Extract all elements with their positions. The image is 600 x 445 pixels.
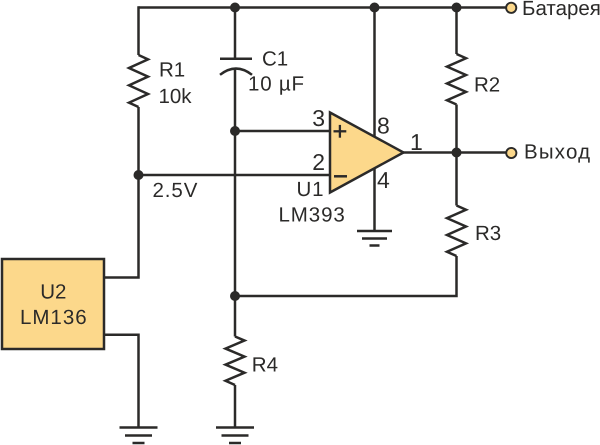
wire: top rail to C1 bbox=[234, 8, 237, 58]
capacitor C1 top plate bbox=[220, 57, 252, 60]
svg-text:R4: R4 bbox=[252, 354, 278, 377]
junction: top rail / C1 bbox=[230, 3, 240, 13]
junction: top rail / U1 pin 8 bbox=[370, 3, 380, 13]
wire: C1 bottom down middle rail to R4 bbox=[234, 69, 237, 337]
junction: top rail / R2 bbox=[452, 3, 462, 13]
svg-text:LM393: LM393 bbox=[279, 204, 346, 227]
wire: R2 bottom to output node bbox=[455, 105, 458, 153]
terminal: output bbox=[506, 148, 516, 158]
resistor R3 bbox=[447, 206, 466, 257]
ground (R4) bbox=[216, 428, 254, 444]
wire: output node to R3 bbox=[455, 153, 458, 206]
svg-text:10k: 10k bbox=[159, 85, 193, 108]
svg-text:R3: R3 bbox=[475, 222, 501, 245]
svg-text:2.5V: 2.5V bbox=[153, 179, 199, 202]
svg-text:1: 1 bbox=[410, 129, 423, 155]
op-amp U1 minus input marker bbox=[334, 175, 347, 178]
wire: node to U1 pin 3 bbox=[235, 130, 330, 133]
ground (U1 pin 4) bbox=[357, 231, 392, 246]
svg-text:U2: U2 bbox=[40, 281, 66, 304]
svg-text:Батарея: Батарея bbox=[522, 0, 600, 20]
wire: 2.5V net from left rail to U1 pin 2 bbox=[139, 174, 331, 177]
svg-text:Выход: Выход bbox=[524, 141, 591, 164]
junction: output node bbox=[452, 148, 462, 158]
terminal: battery bbox=[506, 3, 516, 13]
op-amp U1 (LM393 comparator) bbox=[330, 113, 404, 193]
wire: R4 bottom to ground bbox=[234, 385, 237, 428]
junction: 2.5V node on left rail bbox=[134, 170, 144, 180]
wire: R3 bottom to lower feedback rail bbox=[235, 256, 457, 296]
junction: C1 rail / U1 pin 3 bbox=[230, 126, 240, 136]
svg-text:4: 4 bbox=[377, 167, 390, 193]
svg-text:R1: R1 bbox=[159, 59, 185, 82]
svg-text:U1: U1 bbox=[297, 178, 325, 201]
wire: R1 bottom to U2 pin (left rail lower) bbox=[104, 107, 139, 278]
resistor R1 bbox=[129, 55, 148, 107]
svg-text:LM136: LM136 bbox=[20, 306, 88, 329]
svg-text:R2: R2 bbox=[474, 74, 500, 97]
wire: U2 lower pin to ground bbox=[104, 335, 139, 428]
svg-text:3: 3 bbox=[312, 105, 325, 131]
IC U2 (LM136 reference) bbox=[2, 259, 104, 349]
op-amp U1 plus input marker bbox=[334, 125, 347, 138]
wire: U1 pin 4 to ground bbox=[373, 168, 376, 231]
junction: lower rail / R4 bbox=[230, 291, 240, 301]
wire: left rail top (rail to R1) bbox=[137, 6, 140, 55]
wire: top rail to R2 bbox=[455, 8, 458, 55]
wire: U1 output pin 1 to output terminal bbox=[404, 151, 507, 154]
wire: top rail to U1 pin 8 bbox=[373, 8, 376, 138]
svg-text:C1: C1 bbox=[262, 48, 288, 71]
resistor R2 bbox=[447, 54, 466, 105]
capacitor C1 curved plate bbox=[220, 69, 252, 75]
ground (U2) bbox=[120, 428, 158, 444]
wire: top supply rail bbox=[139, 6, 507, 9]
svg-text:8: 8 bbox=[377, 113, 390, 139]
svg-text:2: 2 bbox=[312, 149, 325, 175]
resistor R4 bbox=[226, 337, 245, 386]
svg-text:10 µF: 10 µF bbox=[248, 73, 305, 96]
